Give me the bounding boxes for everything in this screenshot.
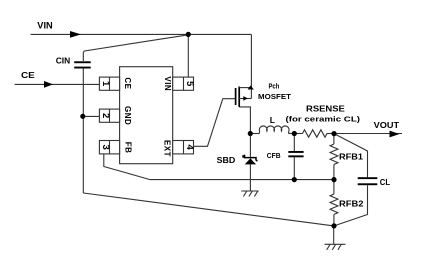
wire CE input — [15, 83, 100, 85]
svg-text:VOUT: VOUT — [374, 120, 400, 130]
wire FB from pin3 — [104, 154, 334, 180]
pin 1 box — [99, 77, 119, 90]
node L-RSENSE/CFB junction — [292, 131, 297, 136]
wire VIN rail to CIN (diagonal) — [83, 35, 188, 61]
wire VOUT output — [334, 133, 402, 135]
capacitor CL — [358, 177, 378, 185]
wire VIN top rail — [31, 33, 252, 35]
wire bottom node to ground symbol — [333, 226, 335, 244]
svg-text:VIN: VIN — [163, 76, 172, 91]
svg-text:CIN: CIN — [56, 56, 70, 66]
svg-text:CE: CE — [21, 70, 35, 80]
wire CL bottom lead (diagonal to ground node) — [334, 185, 368, 226]
pin 2 box — [99, 109, 119, 122]
svg-text:RFB2: RFB2 — [339, 198, 364, 208]
diode SBD (Schottky) — [243, 155, 258, 165]
svg-text:RFB1: RFB1 — [339, 151, 363, 161]
wire pin5 VIN feed — [187, 34, 189, 77]
wire SBD cathode lead — [249, 134, 251, 158]
wire MOSFET drain to LX node — [239, 107, 250, 134]
ground bottom right — [325, 244, 346, 250]
node CFB-FB junction — [292, 177, 297, 182]
svg-text:CE: CE — [123, 77, 132, 89]
svg-text:(for ceramic CL): (for ceramic CL) — [286, 115, 361, 124]
MOSFET body arrow — [243, 96, 248, 101]
svg-text:5: 5 — [184, 81, 195, 87]
svg-text:L: L — [270, 115, 275, 125]
wire RFB2 bottom lead — [333, 214, 335, 226]
capacitor CIN — [74, 61, 91, 68]
ground under SBD — [241, 191, 258, 197]
VOUT output arrow — [390, 131, 400, 138]
wire inductor to RSENSE — [289, 133, 303, 135]
svg-text:CFB: CFB — [267, 151, 281, 160]
channel bar — [238, 87, 240, 107]
svg-text:EXT: EXT — [162, 140, 171, 157]
svg-text:SBD: SBD — [217, 155, 236, 165]
wire CFB bottom lead — [293, 157, 295, 179]
transistor Q1 Pch MOSFET — [236, 87, 252, 107]
svg-text:MOSFET: MOSFET — [258, 92, 291, 101]
wire CIN lead down left rail — [82, 68, 84, 193]
pin 5 box — [173, 77, 194, 90]
node LX junction — [248, 131, 253, 136]
wire EXT pin4 to MOSFET gate — [194, 99, 236, 147]
svg-text:RSENSE: RSENSE — [306, 104, 345, 113]
anode triangle — [245, 158, 256, 164]
wire RFB1 top lead — [333, 134, 335, 144]
resistor RFB1 — [330, 144, 338, 164]
svg-text:Pch: Pch — [269, 82, 280, 91]
source lead — [239, 87, 251, 89]
wire LX node to inductor — [250, 133, 259, 135]
svg-text:1: 1 — [100, 81, 111, 87]
resistor RFB2 — [330, 194, 338, 214]
VIN input arrow — [70, 31, 81, 38]
wire GND pin2 stub — [83, 115, 100, 117]
svg-text:CL: CL — [380, 177, 390, 187]
pin 4 box — [173, 141, 194, 154]
wire CL top lead (diagonal from VOUT node) — [334, 134, 368, 178]
pin 3 box — [99, 141, 119, 154]
wire VIN rail drop to MOSFET source — [250, 34, 252, 98]
cathode bar with schottky hooks — [243, 155, 258, 161]
wire SBD anode to ground — [249, 164, 251, 191]
wire RSENSE out to VOUT node — [327, 133, 335, 135]
wire RFB2 top lead — [333, 180, 335, 194]
inductor L1 — [259, 126, 289, 134]
svg-text:FB: FB — [124, 142, 133, 154]
svg-text:4: 4 — [184, 145, 195, 151]
wire left rail diagonal to bottom ground node — [83, 193, 334, 226]
body lead — [239, 98, 251, 100]
svg-text:3: 3 — [100, 145, 111, 150]
CE input arrow — [44, 81, 53, 88]
svg-text:GND: GND — [123, 106, 132, 125]
resistor RSENSE — [303, 130, 328, 137]
capacitor CFB — [288, 151, 303, 157]
svg-text:2: 2 — [100, 113, 111, 118]
node VOUT junction — [331, 131, 336, 136]
MOSFET source arrow — [248, 85, 254, 89]
IC U1 body — [120, 67, 173, 164]
node bottom ground junction — [331, 223, 336, 228]
wire RFB1 bottom lead — [333, 164, 335, 179]
wire CFB top lead — [293, 134, 295, 152]
node FB divider junction — [331, 177, 336, 182]
gate bar — [235, 88, 237, 105]
svg-text:VIN: VIN — [37, 21, 52, 31]
node VIN rail junction — [186, 32, 191, 37]
node GND/CIN junction — [80, 114, 85, 119]
